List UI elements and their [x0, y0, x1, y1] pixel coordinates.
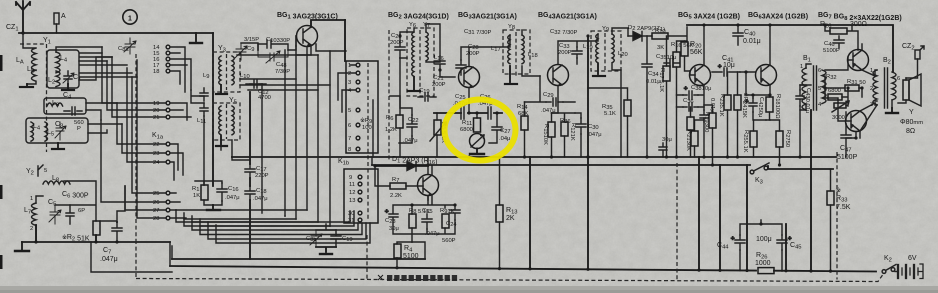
contacts 1-4: [348, 63, 360, 94]
capacitor C3 trimmer: [55, 122, 66, 140]
wire BG1 emitter top: [311, 20, 345, 27]
wire riser joins bus: [176, 210, 330, 226]
svg-text:2: 2: [870, 86, 873, 92]
svg-text:R10: R10: [655, 28, 666, 35]
wire C30: [575, 113, 581, 157]
ground below box: [52, 143, 64, 149]
capacitor C7: [112, 222, 122, 242]
wire C36 R22: [677, 107, 705, 157]
wire osc feedback: [390, 58, 400, 108]
wire det collector down: [427, 196, 429, 200]
svg-text:C19: C19: [342, 236, 353, 243]
wire L3 box to bundle: [86, 103, 117, 120]
antenna: [16, 1, 30, 33]
transformer B2: [873, 68, 896, 108]
wire long vertical x530: [529, 157, 531, 269]
svg-text:6V: 6V: [908, 255, 917, 262]
svg-text:C34: C34: [648, 71, 659, 78]
svg-text:.047μ: .047μ: [253, 196, 268, 202]
wire long vertical x588: [587, 36, 589, 269]
resistor R24: [734, 95, 741, 110]
wire BG4 collector to Y9: [552, 34, 599, 113]
capacitor C8b trimmer: [310, 230, 322, 247]
svg-text:R18100Ω: R18100Ω: [774, 94, 781, 119]
resistor R11: [474, 118, 481, 132]
ground Y8: [505, 66, 517, 84]
rail top right y27: [687, 25, 893, 72]
switch K1b block lower: [344, 169, 378, 223]
wire BG1 collector: [237, 44, 346, 55]
svg-text:7/30P: 7/30P: [275, 69, 290, 75]
svg-text:56K: 56K: [690, 49, 703, 56]
wire cluster bottom: [393, 220, 455, 242]
wire left rail risers: [170, 242, 425, 268]
svg-text:6: 6: [348, 123, 351, 129]
ground C8b C19: [316, 247, 336, 254]
ground stub on top wire: [190, 33, 202, 43]
dashed riser x367: [366, 235, 368, 280]
wire rail right verticals: [699, 110, 811, 271]
svg-text:6800: 6800: [828, 88, 841, 94]
inductor L7: [32, 196, 44, 242]
inductor L2: [56, 71, 60, 87]
resistor R32: [828, 94, 842, 100]
wire R25: [753, 120, 755, 157]
wire vertical x213: [212, 33, 214, 186]
inductor L5: [45, 122, 48, 141]
svg-text:R235.1K: R235.1K: [718, 94, 725, 117]
capacitor C22: [407, 115, 417, 136]
highlight yellow circle: [445, 100, 516, 161]
osc transformer Y6 Y7: [407, 28, 434, 96]
switch K1b block upper: [346, 61, 378, 153]
inductor LB: [27, 70, 36, 84]
svg-text:200P: 200P: [466, 51, 480, 57]
wire R14: [524, 102, 526, 157]
wire osc bottom: [22, 222, 170, 242]
inductor L8: [43, 181, 70, 184]
svg-text:18: 18: [153, 69, 159, 75]
svg-text:5.1K: 5.1K: [604, 111, 616, 117]
svg-text:R6: R6: [386, 115, 393, 122]
svg-text:13: 13: [349, 198, 355, 204]
svg-text:1: 1: [800, 64, 803, 70]
shield box L4 L2 C1: [47, 50, 79, 88]
capacitor C4: [64, 107, 82, 115]
svg-text:22: 22: [153, 142, 159, 148]
svg-text:11: 11: [349, 182, 355, 188]
switch K3: [750, 163, 769, 174]
svg-text:C8a: C8a: [118, 46, 129, 53]
svg-text:Y9: Y9: [602, 26, 609, 33]
capacitor C35: [664, 59, 679, 67]
resistor R35: [624, 100, 631, 116]
svg-text:C46: C46: [824, 41, 835, 48]
dashed battery line vertical left: [135, 240, 137, 280]
capacitor C21: [435, 56, 445, 70]
svg-text:1: 1: [870, 68, 873, 74]
svg-text:6800: 6800: [460, 127, 473, 133]
svg-text:R11: R11: [462, 120, 472, 127]
inductor LA: [23, 33, 36, 70]
wire BG6 emitter down: [746, 85, 770, 95]
wire CZ2 down: [906, 59, 918, 78]
switch K1a contacts 22-24: [153, 142, 170, 166]
wire mid rail y96: [191, 90, 204, 103]
svg-text:200P: 200P: [558, 50, 572, 56]
capacitor C41: [712, 64, 740, 76]
svg-text:R7: R7: [392, 177, 399, 184]
node dots bottom rail: [395, 266, 398, 269]
wire mid bias network: [825, 76, 862, 106]
shield box L5 C3: [26, 118, 88, 143]
capacitor C38: [683, 86, 698, 99]
contacts 9-13: [349, 175, 362, 204]
svg-text:3: 3: [870, 102, 873, 108]
wire BG2 collector to Y8: [461, 35, 510, 66]
capacitor C15: [422, 214, 432, 229]
wire BG8 emitter to B2: [846, 105, 877, 138]
wire R4: [397, 242, 412, 259]
wire R20 down: [685, 41, 691, 71]
jack A: [54, 13, 59, 33]
wire Y6 top feed: [400, 24, 455, 77]
dashed boundary x389: [388, 30, 390, 160]
svg-text:R32: R32: [826, 74, 837, 81]
wire R24: [737, 72, 739, 157]
svg-text:L18: L18: [528, 52, 538, 59]
ground Y7: [408, 77, 420, 91]
svg-text:C36: C36: [683, 98, 694, 105]
svg-text:C21: C21: [433, 75, 444, 82]
circled 1: [123, 10, 137, 24]
wire R19: [704, 105, 713, 165]
svg-text:100: 100: [362, 125, 372, 131]
svg-text:1.2K: 1.2K: [385, 127, 397, 133]
svg-text:R17 5.1K: R17 5.1K: [658, 68, 665, 92]
capacitor C48 trimmer: [258, 50, 288, 63]
rail AGC y157: [232, 156, 836, 158]
svg-text:L20: L20: [618, 51, 628, 58]
capacitor C47: [841, 124, 851, 157]
svg-text:23: 23: [153, 151, 159, 157]
svg-text:A: A: [61, 13, 66, 20]
switch K1b moving line: [367, 63, 369, 221]
svg-text:19: 19: [153, 101, 159, 107]
capacitor C45 electrolytic: [777, 235, 792, 250]
wire caps line: [434, 112, 502, 114]
wire K3 right: [768, 166, 833, 169]
svg-text:R1: R1: [192, 186, 199, 193]
svg-text:R2750: R2750: [784, 130, 791, 147]
capacitor C18: [245, 186, 255, 200]
ground left bottom: [15, 242, 29, 251]
capacitor C28: [456, 60, 466, 75]
node dots misc: [398, 34, 401, 37]
svg-text:3000: 3000: [832, 115, 845, 121]
wire y165 left end: [372, 100, 375, 166]
node C44 top: [759, 222, 762, 225]
switch contact stubs right: [170, 47, 191, 218]
svg-text:68K: 68K: [518, 111, 528, 117]
inductor L3: [47, 103, 63, 106]
wire BG1 riser tops: [250, 46, 318, 84]
svg-text:9: 9: [349, 175, 352, 181]
capacitor C46: [834, 36, 844, 48]
rail bottom main: [170, 266, 876, 272]
wire BG1 base: [241, 36, 296, 50]
wire R1 C16 join: [195, 181, 222, 205]
wire B1 primary: [800, 64, 811, 110]
svg-text:Y: Y: [909, 109, 914, 116]
wire detector collector rail: [427, 157, 429, 166]
svg-text:C19: C19: [419, 88, 430, 95]
switch K2: [882, 265, 896, 274]
svg-text:2K: 2K: [506, 215, 515, 222]
wire bundle top corners: [80, 53, 137, 77]
svg-text:1: 1: [30, 196, 33, 202]
resistor R23: [724, 95, 731, 110]
diode D2: [628, 32, 652, 42]
svg-text:C9: C9: [247, 46, 254, 53]
svg-text:C22: C22: [408, 117, 419, 124]
wire BG6 collector up: [769, 25, 771, 65]
svg-text:2: 2: [30, 226, 33, 232]
wire L4 top to bundle: [56, 47, 102, 52]
svg-text:3: 3: [348, 80, 351, 86]
IF transformer Y3: [213, 52, 240, 92]
capacitor C44 electrolytic: [731, 235, 745, 250]
svg-text:.047μ: .047μ: [587, 132, 602, 138]
dashed link C8a: [135, 54, 137, 240]
svg-text:C15: C15: [422, 208, 433, 215]
resistor R25: [750, 131, 757, 147]
wire R13 vertical: [499, 157, 501, 269]
svg-text:C3810μ: C3810μ: [691, 85, 711, 92]
ground below LB: [20, 84, 33, 87]
wire box to bundle: [88, 124, 122, 133]
svg-text:C27: C27: [500, 128, 511, 135]
resistor R17: [663, 66, 670, 81]
dashed riser x677: [676, 163, 678, 280]
wire detector line: [375, 165, 428, 167]
svg-text:5100P: 5100P: [837, 154, 858, 161]
contacts 5-8: [348, 108, 360, 153]
capacitor C40: [733, 25, 743, 45]
resistor R31: [845, 85, 859, 91]
switch K1a contacts 19-21: [153, 101, 170, 121]
resistor R33: [827, 191, 834, 205]
capacitor C14: [200, 103, 208, 116]
svg-text:30μ: 30μ: [389, 226, 399, 232]
capacitor C37: [659, 143, 667, 157]
transistor BG7: [848, 50, 869, 71]
svg-text:1: 1: [348, 63, 351, 69]
wire R23: [727, 72, 729, 157]
capacitor C24: [450, 205, 460, 220]
wire speaker top: [898, 78, 906, 103]
resistor R1: [201, 185, 208, 200]
resistor R7: [390, 183, 406, 189]
wire BG1 down: [296, 36, 307, 55]
node antenna junction: [21, 31, 24, 34]
svg-text:5: 5: [44, 168, 47, 174]
svg-text:4700: 4700: [258, 95, 271, 101]
node dots bottom left: [34, 240, 37, 243]
capacitor C17: [245, 164, 255, 178]
wire detector emitter down: [412, 195, 455, 214]
wire C29 line: [525, 76, 576, 102]
battery B: [895, 264, 923, 279]
svg-text:.047μ: .047μ: [225, 195, 240, 201]
wire R12: [552, 113, 576, 157]
svg-text:C32 7/30P: C32 7/30P: [550, 29, 578, 36]
svg-text:1000: 1000: [755, 260, 771, 267]
capacitor C27: [489, 113, 502, 143]
capacitor C13: [200, 88, 208, 101]
switch K1a contacts 14-18: [153, 45, 170, 75]
wire R27: [770, 120, 780, 165]
svg-text:P: P: [77, 126, 81, 132]
resistor R20: [681, 42, 688, 56]
svg-text:L9: L9: [203, 73, 209, 80]
svg-text:5: 5: [818, 86, 821, 92]
jack CZ2: [915, 46, 924, 59]
svg-text:C33: C33: [559, 43, 570, 50]
capacitor C33: [572, 47, 582, 58]
svg-text:27: 27: [153, 208, 159, 214]
wire BG7 base emitter: [825, 44, 875, 76]
IF transformer Y9: [591, 26, 621, 71]
capacitor C42 electrolytic: [745, 98, 757, 112]
svg-text:C30: C30: [588, 124, 599, 131]
svg-text:3K: 3K: [657, 45, 664, 51]
speaker Y: [903, 74, 921, 106]
contacts 30 31: [348, 211, 362, 224]
capacitor C19b: [418, 93, 436, 101]
dashed battery rail: [136, 273, 884, 282]
svg-text:26: 26: [153, 200, 159, 206]
ground below C1: [62, 84, 74, 90]
transistor BG6: [756, 65, 777, 86]
wire C8b C19 top: [316, 224, 336, 230]
wire top left horizontal: [19, 32, 213, 34]
ground Y9: [593, 64, 605, 76]
svg-text:R35: R35: [602, 104, 613, 111]
capacitor C12: [246, 80, 266, 88]
capacitor C5 trimmer: [49, 205, 61, 224]
svg-text:28: 28: [153, 216, 159, 222]
ground Y5: [216, 136, 227, 146]
capacitor C30: [576, 118, 586, 134]
svg-text:R121K: R121K: [569, 123, 576, 141]
resistor R27: [776, 131, 783, 147]
capacitor C34: [642, 36, 652, 157]
resistor R18: [766, 97, 773, 112]
svg-text:C3510μ: C3510μ: [656, 54, 676, 61]
wire BG7 collector to B2: [875, 70, 877, 105]
transistor BG detector: [418, 175, 439, 196]
svg-text:R255.1K: R255.1K: [742, 130, 749, 153]
capacitor C36: [683, 103, 698, 111]
wire R10 to rail: [668, 27, 687, 41]
resistor R22: [687, 117, 694, 130]
IF transformer Y5: [213, 103, 240, 140]
IF transformer Y8: [503, 24, 530, 76]
diode D1: [407, 162, 416, 172]
capacitor C26: [488, 107, 491, 119]
capacitor C19: [331, 230, 341, 247]
svg-text:R91K: R91K: [440, 208, 455, 215]
wire rail to R28: [825, 25, 858, 50]
node dots rails: [467, 155, 470, 158]
transistor BG2: [459, 67, 480, 88]
resistor R15: [548, 122, 555, 137]
svg-text:6: 6: [818, 68, 821, 74]
capacitor C5b: [66, 205, 74, 224]
capacitor C20: [395, 36, 405, 58]
svg-text:.047μ: .047μ: [100, 256, 118, 263]
wire R18: [766, 95, 770, 120]
resistor R6: [396, 115, 403, 128]
rail mid-low y259: [172, 258, 425, 260]
inductor L5a: [31, 122, 34, 141]
svg-text:200P: 200P: [390, 40, 404, 46]
transistor BG5: [690, 65, 711, 86]
wire Y3 outputs right: [240, 79, 330, 90]
resistor R12: [561, 122, 568, 136]
bottom note text blocks: [387, 275, 457, 281]
switch K1a contacts 25-28: [153, 191, 170, 222]
wire mixer bias: [399, 96, 437, 157]
resistor R14: [521, 116, 528, 130]
svg-text:0.01μ: 0.01μ: [743, 38, 761, 45]
svg-text:C16: C16: [228, 186, 239, 193]
capacitor C29: [546, 98, 563, 106]
ground Y3: [216, 85, 227, 94]
transistor BG4: [548, 65, 569, 86]
resistor R2: [93, 221, 100, 235]
transformer Y1 core: [20, 44, 47, 152]
svg-text:2.2K: 2.2K: [390, 193, 402, 199]
wire osc right: [100, 186, 125, 222]
wire bend to lower bus: [91, 242, 172, 272]
svg-text:R31 50: R31 50: [847, 79, 866, 86]
wire BG2 emitter down: [469, 88, 477, 118]
svg-text:※R9: ※R9: [360, 117, 372, 125]
svg-text:1K: 1K: [193, 193, 200, 199]
shield box L3 C4: [44, 98, 86, 114]
wire C42: [753, 95, 766, 120]
wire Y8 secondary down: [522, 30, 540, 76]
capacitor C23 electrolytic: [385, 205, 412, 229]
resistor R16: [673, 52, 680, 67]
svg-text:C10330P: C10330P: [266, 37, 290, 44]
svg-text:10μ: 10μ: [723, 62, 735, 69]
resistor R8: [409, 214, 416, 228]
capacitor C8a trimmer: [124, 38, 136, 54]
rail y165: [372, 164, 750, 166]
wire R35: [588, 88, 628, 157]
wire BG6 collector to B1: [805, 67, 807, 69]
svg-text:Φ80mm: Φ80mm: [900, 119, 923, 126]
capacitor C1 trimmer: [63, 71, 74, 84]
svg-text:25: 25: [153, 191, 159, 197]
capacitor C25: [461, 107, 464, 119]
svg-text:6P: 6P: [78, 208, 85, 214]
wire R21: [695, 118, 705, 157]
wire R16: [677, 41, 688, 157]
